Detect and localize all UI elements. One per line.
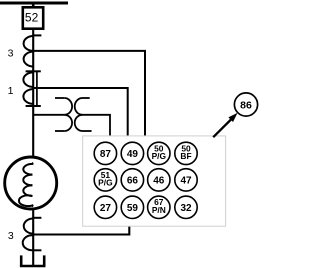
CT window bottom bar (26, 105, 41, 107)
VT primary top stub (55, 97, 64, 99)
svg-text:27: 27 (100, 203, 112, 214)
CT set winding bump 2 (24, 52, 34, 67)
wire bus to breaker (32, 3, 35, 7)
VT primary bump 2 (64, 115, 72, 131)
svg-text:87: 87 (100, 149, 112, 160)
wire main vertical feeder lower (32, 206, 34, 266)
svg-text:1: 1 (8, 85, 14, 97)
relay 47 (175, 169, 197, 191)
relay 32 (175, 196, 197, 218)
relay 87 (94, 142, 116, 164)
CT window winding bump 1 (23, 72, 33, 87)
svg-text:52: 52 (25, 10, 39, 24)
neutral CT winding bump 1 (24, 219, 33, 234)
svg-text:86: 86 (240, 99, 252, 111)
generator winding bump 1 (23, 163, 33, 175)
svg-text:47: 47 (180, 176, 192, 187)
CT window secondary parallel line (36, 71, 38, 106)
svg-text:66: 66 (127, 176, 139, 187)
wire VT secondary to relays (83, 115, 111, 136)
svg-text:P/G: P/G (152, 151, 166, 161)
VT secondary bottom stub (83, 130, 92, 132)
relay 49 (121, 142, 143, 164)
svg-text:3: 3 (8, 230, 14, 242)
svg-text:46: 46 (153, 176, 165, 187)
VT secondary bump 1 (75, 98, 83, 115)
relay 66 (121, 169, 143, 191)
relay 46 (148, 169, 170, 191)
grounding resistor bottom bar (20, 265, 46, 267)
relay panel box (83, 136, 226, 226)
VT secondary top stub (83, 97, 90, 99)
svg-text:59: 59 (127, 203, 139, 214)
breaker 52 (23, 7, 43, 28)
neutral CT bottom lead stub (33, 249, 41, 251)
CT window top bar (26, 70, 41, 72)
neutral CT top lead stub (33, 217, 41, 219)
CT set winding bump 1 (24, 36, 34, 51)
relay 59 (121, 196, 143, 218)
relay 50 P/G (148, 142, 170, 164)
wire main vertical feeder upper (32, 30, 34, 163)
svg-text:3: 3 (8, 47, 14, 59)
CT set top lead stub (33, 34, 41, 36)
VT secondary bump 2 (75, 115, 83, 131)
relay 51 P/G (94, 169, 116, 191)
svg-text:BF: BF (180, 151, 191, 161)
bus bar (0, 2, 68, 5)
grounding resistor left post (20, 255, 23, 266)
neutral CT winding bump 2 (23, 235, 33, 250)
relay 67 P/N (148, 196, 170, 218)
generator winding bump 3 (23, 185, 32, 196)
svg-text:32: 32 (180, 203, 192, 214)
VT primary bump 1 (64, 98, 72, 115)
generator winding bump 2 (23, 175, 32, 186)
CT window winding bump 2 (23, 89, 33, 104)
wire neutral CT secondary to relays (33, 226, 129, 234)
grounding resistor right post (43, 255, 46, 266)
wire CT secondary to relays (33, 51, 145, 136)
wire VT primary tap to feeder (33, 114, 64, 116)
arrow trip to lockout (213, 120, 231, 138)
svg-text:P/G: P/G (98, 178, 112, 188)
generator circle (5, 157, 57, 209)
svg-text:P/N: P/N (152, 205, 166, 215)
wire CT window secondary to relays (33, 88, 128, 136)
VT primary bottom stub (55, 130, 64, 132)
relay 27 (94, 196, 116, 218)
lockout relay 86 (234, 93, 257, 116)
generator winding bump 4 (19, 195, 33, 206)
svg-text:49: 49 (127, 149, 139, 160)
relay 50 BF (175, 142, 197, 164)
